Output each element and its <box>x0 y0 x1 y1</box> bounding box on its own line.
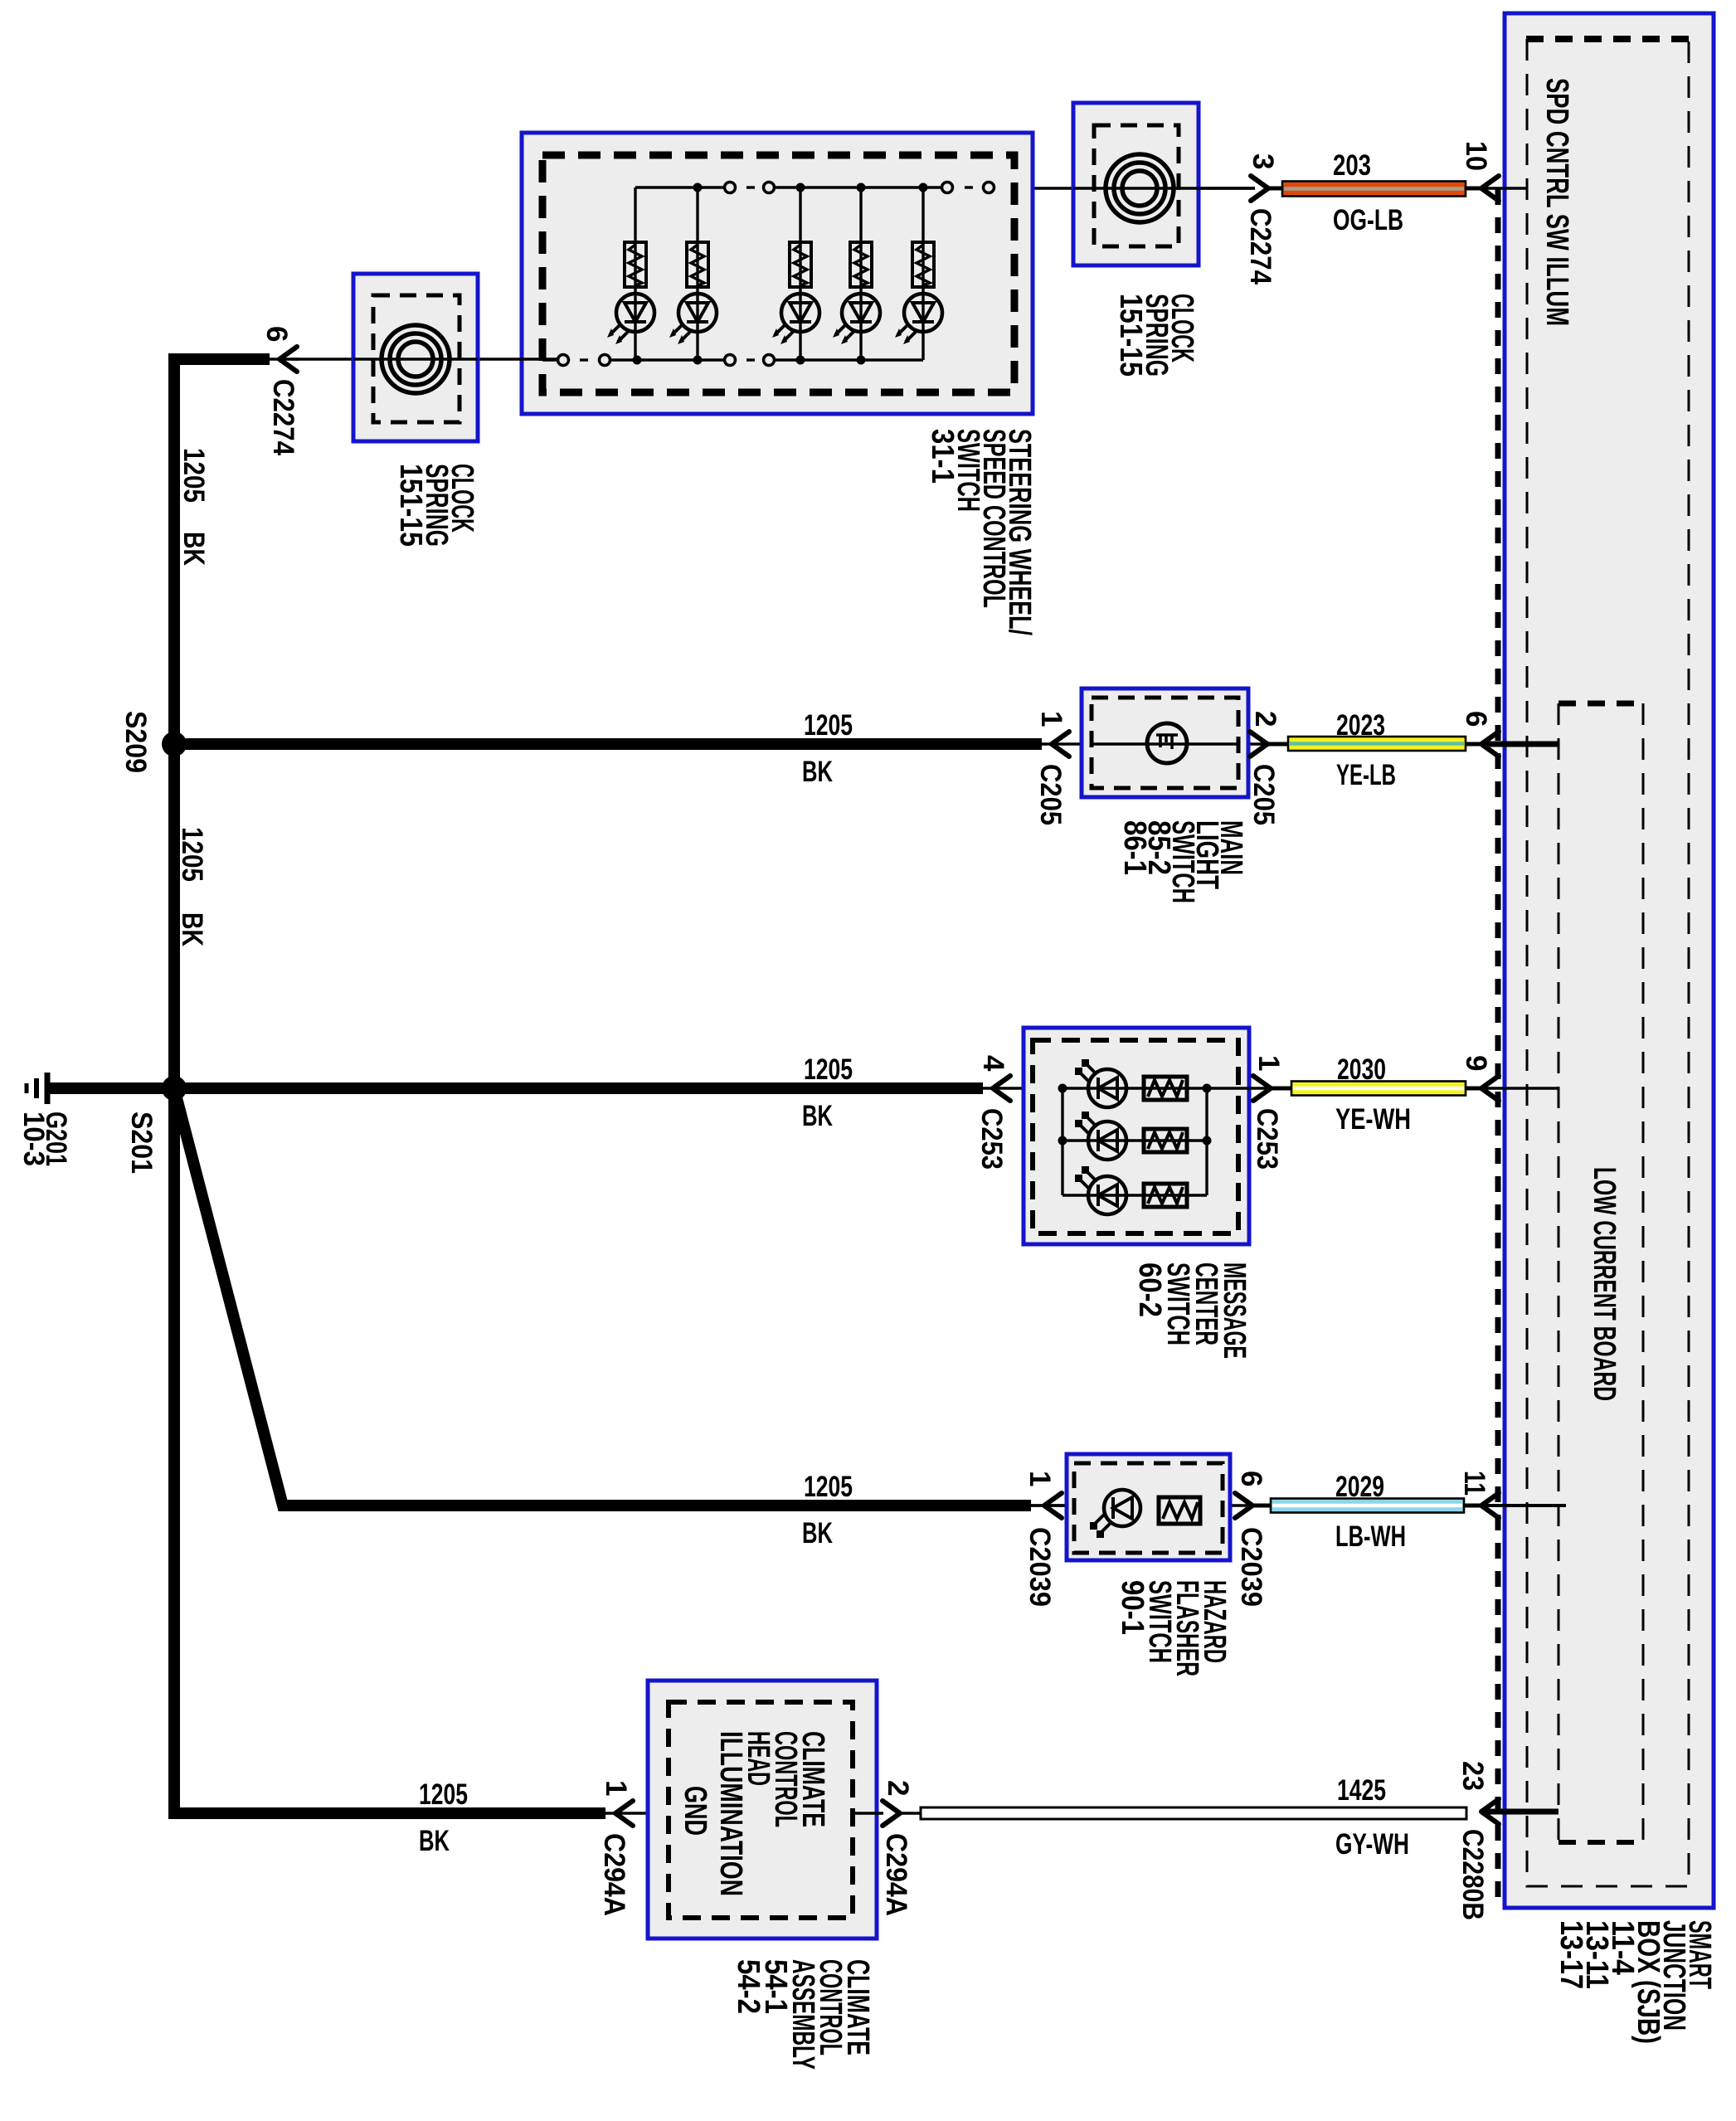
SJB internal bold dashed bus line <box>1495 189 1501 1903</box>
svg-text:C2039: C2039 <box>1235 1527 1267 1607</box>
svg-text:13-17: 13-17 <box>1554 1920 1588 1989</box>
pin label 2 (C294A) <box>882 1780 914 1796</box>
label 1205 (row 2) <box>804 709 853 742</box>
svg-text:C205: C205 <box>1034 764 1067 825</box>
svg-text:C2280B: C2280B <box>1456 1829 1489 1920</box>
svg-text:11: 11 <box>1458 1471 1490 1496</box>
wire message center to pin 1 <box>1207 1087 1271 1089</box>
svg-text:9: 9 <box>1460 1055 1492 1071</box>
svg-text:3: 3 <box>1247 153 1279 169</box>
message center left bus <box>1061 1088 1063 1195</box>
svg-text:BK: BK <box>176 912 208 946</box>
pin label 6 (C2274) <box>260 326 293 342</box>
wire through hazard flasher switch <box>1031 1504 1252 1506</box>
svg-text:YE-LB: YE-LB <box>1336 759 1396 791</box>
svg-text:S209: S209 <box>119 711 152 773</box>
label CLIMATE CONTROL ASSEMBLY 54-1 54-2 <box>731 1959 875 2070</box>
switch top bus inline connector circles <box>725 182 994 193</box>
message center row 1 LED <box>1075 1059 1126 1107</box>
wire 1205 BK trunk vertical <box>168 353 180 1819</box>
label YE-WH <box>1335 1103 1411 1136</box>
switch branch 5 resistor <box>912 242 934 287</box>
clock spring (right) coil symbol <box>1073 154 1255 222</box>
wire from left clock spring to switch box <box>291 358 558 360</box>
svg-text:BK: BK <box>802 756 833 788</box>
svg-text:1205: 1205 <box>176 827 208 882</box>
wire stub wire2030 to pin 9 <box>1466 1087 1481 1091</box>
svg-text:C2039: C2039 <box>1024 1527 1056 1607</box>
pin label 1 (C2039) <box>1024 1471 1056 1486</box>
wire 1205 BK to message center switch <box>174 1082 983 1094</box>
label BK (row 3) <box>802 1100 833 1132</box>
pin label 23 (SJB) <box>1456 1761 1489 1791</box>
connector arrow pin 6 C2274 <box>280 347 297 372</box>
message center right bus <box>1205 1088 1208 1195</box>
wire 203 OG-LB <box>1282 182 1466 197</box>
svg-text:6: 6 <box>1235 1471 1267 1486</box>
svg-text:23: 23 <box>1456 1761 1489 1791</box>
ground wire G201 <box>47 1082 168 1094</box>
connector label C2280B <box>1456 1829 1489 1920</box>
wire stub wire2023 to pin 6 <box>1466 742 1481 747</box>
svg-text:86-1: 86-1 <box>1117 820 1152 875</box>
wire from steering wheel switch to clock spring and pin 3 <box>994 187 1255 189</box>
connector label C205 (left) <box>1034 764 1067 825</box>
svg-text:151-15: 151-15 <box>393 464 428 547</box>
label BK (trunk mid) <box>176 912 208 946</box>
svg-text:C2274: C2274 <box>267 379 299 455</box>
clock spring (left) coil symbol <box>353 325 478 393</box>
svg-text:SPD CNTRL SW ILLUM: SPD CNTRL SW ILLUM <box>1539 78 1574 326</box>
wire into message center switch <box>983 1087 1063 1089</box>
connector label C253 (right) <box>1251 1108 1283 1170</box>
label 2030 <box>1337 1053 1386 1086</box>
wire 1205 BK diagonal from S201 <box>175 1092 1031 1506</box>
label CLOCK SPRING 151-15 (right) <box>1113 294 1199 377</box>
connector label C2039 (right) <box>1235 1527 1267 1607</box>
svg-text:1205: 1205 <box>177 448 210 503</box>
switch top bus wire <box>635 186 973 188</box>
label MAIN LIGHT SWITCH 85-2 86-1 <box>1117 820 1248 903</box>
label CLIMATE CONTROL HEAD ILLUMINATION <box>713 1731 830 1896</box>
svg-text:C294A: C294A <box>598 1833 630 1916</box>
hazard flasher LED <box>1090 1490 1140 1538</box>
svg-text:90-1: 90-1 <box>1115 1580 1150 1635</box>
pin label 3 <box>1247 153 1279 169</box>
wire under pin1 arrow <box>1031 1504 1069 1506</box>
connector arrow pin 1 C2039 <box>1044 1493 1062 1518</box>
wire 1205 BK trunk horizontal top segment <box>168 353 299 365</box>
illumination bulb symbol <box>1147 723 1187 763</box>
wire through main light switch <box>1042 742 1267 745</box>
connector label C2274 (left) <box>267 379 299 455</box>
label SMART JUNCTION BOX (SJB) 11-4 13-11 13-17 <box>1554 1920 1717 2044</box>
wire stub pin2 to wire 2023 <box>1267 742 1291 747</box>
label 2029 <box>1335 1471 1384 1503</box>
SJB inner dashed boundary <box>1527 39 1689 1886</box>
message center bus junction dots <box>1058 1084 1212 1146</box>
switch branch 2 resistor <box>687 242 708 287</box>
clock spring (left) box <box>353 274 478 441</box>
wire stub pin2 to wire 1425 <box>900 1812 922 1814</box>
svg-text:6: 6 <box>260 326 293 342</box>
switch bottom bus inline connector circles <box>558 355 775 366</box>
label 1205 (row 5) <box>419 1778 468 1811</box>
connector arrow pin 1 C294A <box>615 1801 633 1826</box>
switch top bus junction dots <box>693 183 928 192</box>
label GND <box>678 1786 712 1836</box>
svg-text:1: 1 <box>600 1780 632 1796</box>
message center row 2 LED <box>1075 1112 1126 1160</box>
svg-text:203: 203 <box>1333 149 1371 182</box>
label 2023 <box>1336 709 1385 742</box>
label SPD CNTRL SW ILLUM <box>1539 78 1574 326</box>
wire into climate control head <box>605 1812 669 1814</box>
svg-text:BK: BK <box>802 1517 833 1549</box>
wire pin23 to low current board <box>1481 1809 1559 1815</box>
label BK (trunk upper) <box>177 532 210 566</box>
svg-text:2: 2 <box>882 1780 914 1796</box>
label LB-WH <box>1335 1520 1406 1553</box>
label BK (row 5) <box>419 1825 450 1857</box>
switch branch 1 resistor <box>625 242 646 287</box>
pin label 2 (C205) <box>1249 711 1281 727</box>
svg-text:LB-WH: LB-WH <box>1335 1520 1406 1553</box>
switch branch 1 LED <box>607 294 654 344</box>
pin label 6 (C2039) <box>1235 1471 1267 1486</box>
message center row 1 resistor <box>1144 1077 1187 1100</box>
hazard flasher resistor <box>1159 1497 1200 1524</box>
wire 2029 LB-WH <box>1271 1499 1464 1513</box>
svg-text:151-15: 151-15 <box>1113 294 1148 377</box>
message center row 2 resistor <box>1144 1129 1187 1152</box>
switch branch 2 LED <box>669 294 717 344</box>
svg-text:54-2: 54-2 <box>731 1959 766 2014</box>
pin label 9 (SJB) <box>1460 1055 1492 1071</box>
wire pin6 to low current board <box>1481 742 1559 747</box>
connector label C205 (right) <box>1247 764 1280 825</box>
svg-text:6: 6 <box>1460 711 1492 727</box>
switch branch 4 LED <box>833 294 880 344</box>
connector arrow pin 6 C2039 <box>1235 1493 1252 1518</box>
switch branch 5 wire <box>921 187 924 360</box>
wire 1205 BK to climate control <box>168 1807 605 1819</box>
wire 1205 BK to main light switch <box>174 738 1042 750</box>
svg-text:1205: 1205 <box>804 1471 853 1503</box>
junction S201 <box>162 1076 187 1101</box>
connector arrow pin 3 <box>1251 176 1268 201</box>
switch bottom bus wire <box>542 358 923 361</box>
connector arrow pin 9 into SJB <box>1481 1076 1499 1101</box>
pin label 1 (C253) <box>1252 1055 1285 1071</box>
svg-text:1: 1 <box>1035 711 1067 727</box>
pin label 10 <box>1460 141 1492 171</box>
svg-text:2023: 2023 <box>1336 709 1385 742</box>
wire stub pin1 to wire 2030 <box>1271 1087 1294 1091</box>
svg-text:10: 10 <box>1460 141 1492 171</box>
wire pin9 to low current board <box>1481 1087 1559 1089</box>
svg-text:C253: C253 <box>975 1108 1008 1170</box>
connector arrow pin 2 C294A <box>883 1801 900 1826</box>
message center row 3 resistor <box>1144 1184 1187 1207</box>
svg-text:C294A: C294A <box>880 1833 912 1916</box>
wire 1425 GY-WH <box>921 1807 1466 1819</box>
connector arrow pin 2 C205 <box>1250 732 1267 756</box>
wire pin10 inside SJB <box>1481 187 1527 189</box>
pin label 1 (C294A) <box>600 1780 632 1796</box>
switch branch 2 wire <box>696 187 698 360</box>
label 1205 (row 4) <box>804 1471 853 1503</box>
svg-text:1205: 1205 <box>804 1053 853 1086</box>
svg-text:C253: C253 <box>1251 1108 1283 1170</box>
message center row 2 wire <box>1063 1139 1207 1141</box>
main light switch box <box>1082 688 1248 797</box>
switch branch 3 LED <box>772 294 819 344</box>
wire stub wire2029 to pin 11 <box>1464 1504 1481 1508</box>
svg-text:60-2: 60-2 <box>1132 1262 1167 1317</box>
pin label 4 (C253) <box>977 1055 1009 1072</box>
svg-text:2030: 2030 <box>1337 1053 1386 1086</box>
climate control assembly box <box>648 1681 877 1939</box>
label 1205 (trunk upper) <box>177 448 210 503</box>
svg-text:1: 1 <box>1252 1055 1285 1071</box>
label GY-WH <box>1335 1828 1409 1861</box>
connector arrow pin 10 into SJB <box>1481 176 1499 201</box>
message center switch box <box>1024 1028 1249 1244</box>
connector arrow pin 11 into SJB <box>1481 1493 1499 1518</box>
svg-text:C2274: C2274 <box>1244 208 1276 285</box>
label CLOCK SPRING 151-15 (left) <box>393 464 479 547</box>
label 203 <box>1333 149 1371 182</box>
svg-text:BK: BK <box>802 1100 833 1132</box>
svg-text:1205: 1205 <box>419 1778 468 1811</box>
switch branch 1 wire <box>634 187 636 360</box>
connector label C2039 (left) <box>1024 1527 1056 1607</box>
connector arrow pin 23 into SJB <box>1481 1799 1499 1824</box>
wire stub pin6 to wire 2029 <box>1252 1504 1273 1508</box>
connector label C294A (right) <box>880 1833 912 1916</box>
wire stub pin3 to wire 203 <box>1268 187 1284 191</box>
svg-text:31-1: 31-1 <box>925 429 960 484</box>
pin label 1 (C205) <box>1035 711 1067 727</box>
label HAZARD FLASHER SWITCH 90-1 <box>1115 1580 1232 1676</box>
wire pin11 to low current board <box>1481 1504 1566 1507</box>
connector arrow pin 6 into SJB <box>1481 732 1499 756</box>
connector label C2274 (right) <box>1244 208 1276 285</box>
label S209 <box>119 711 152 773</box>
label YE-LB <box>1336 759 1396 791</box>
svg-text:1: 1 <box>1024 1471 1056 1486</box>
junction S209 <box>162 732 187 756</box>
svg-text:GND: GND <box>678 1786 712 1836</box>
svg-text:GY-WH: GY-WH <box>1335 1828 1409 1861</box>
connector label C253 (left) <box>975 1108 1008 1170</box>
label G201 10-3 <box>17 1112 72 1166</box>
wire 2030 YE-WH <box>1291 1082 1466 1096</box>
wire 2023 YE-LB <box>1288 737 1466 751</box>
svg-text:4: 4 <box>977 1055 1009 1072</box>
message center row 3 LED <box>1075 1166 1126 1214</box>
switch bottom bus junction dots <box>633 356 866 365</box>
steering wheel/speed control switch box <box>522 133 1033 414</box>
svg-text:1425: 1425 <box>1337 1774 1386 1807</box>
SPD CNTRL SW ILLUM dashed box top edge <box>1526 36 1690 42</box>
svg-text:ILLUMINATION: ILLUMINATION <box>713 1731 748 1896</box>
label LOW CURRENT BOARD <box>1587 1167 1622 1401</box>
wire stub wire203 to pin 10 <box>1466 187 1481 191</box>
svg-text:2: 2 <box>1249 711 1281 727</box>
hazard flasher switch box <box>1067 1454 1230 1560</box>
svg-text:OG-LB: OG-LB <box>1333 204 1403 236</box>
switch branch 3 wire <box>799 187 801 360</box>
label OG-LB <box>1333 204 1403 236</box>
switch branch 4 resistor <box>850 242 872 287</box>
smart junction box (SJB) outline <box>1505 13 1714 1908</box>
svg-text:10-3: 10-3 <box>17 1112 50 1166</box>
label MESSAGE CENTER SWITCH 60-2 <box>1132 1262 1252 1359</box>
clock spring (right) box <box>1073 103 1199 265</box>
pin label 11 (SJB) <box>1458 1471 1490 1496</box>
label BK (row 4) <box>802 1517 833 1549</box>
connector arrow pin 1 C205 <box>1052 732 1069 756</box>
label S201 <box>125 1112 158 1174</box>
connector arrow pin 1 C253 <box>1253 1076 1271 1101</box>
ground symbol G201 <box>27 1073 47 1104</box>
switch branch 5 LED <box>895 294 942 344</box>
label STEERING WHEEL/ SPEED CONTROL SWITCH 31-1 <box>925 429 1037 635</box>
message center row 1 wire <box>1063 1087 1207 1089</box>
svg-text:BK: BK <box>419 1825 450 1857</box>
connector label C294A (left) <box>598 1833 630 1916</box>
label 1205 (trunk mid) <box>176 827 208 882</box>
svg-text:BK: BK <box>177 532 210 566</box>
svg-text:1205: 1205 <box>804 709 853 742</box>
pin label 6 (SJB) <box>1460 711 1492 727</box>
svg-text:C205: C205 <box>1247 764 1280 825</box>
wire out of climate control head <box>853 1812 883 1814</box>
svg-text:YE-WH: YE-WH <box>1335 1103 1411 1136</box>
label 1205 (row 3) <box>804 1053 853 1086</box>
svg-text:S201: S201 <box>125 1112 158 1174</box>
message center row 3 wire <box>1063 1194 1207 1196</box>
connector arrow pin 4 C253 <box>993 1076 1010 1101</box>
switch branch 3 resistor <box>790 242 811 287</box>
switch branch 4 wire <box>859 187 862 360</box>
label BK (row 2) <box>802 756 833 788</box>
svg-text:2029: 2029 <box>1335 1471 1384 1503</box>
svg-text:LOW CURRENT BOARD: LOW CURRENT BOARD <box>1587 1167 1622 1401</box>
low current board dashed box <box>1559 703 1645 1842</box>
label 1425 <box>1337 1774 1386 1807</box>
